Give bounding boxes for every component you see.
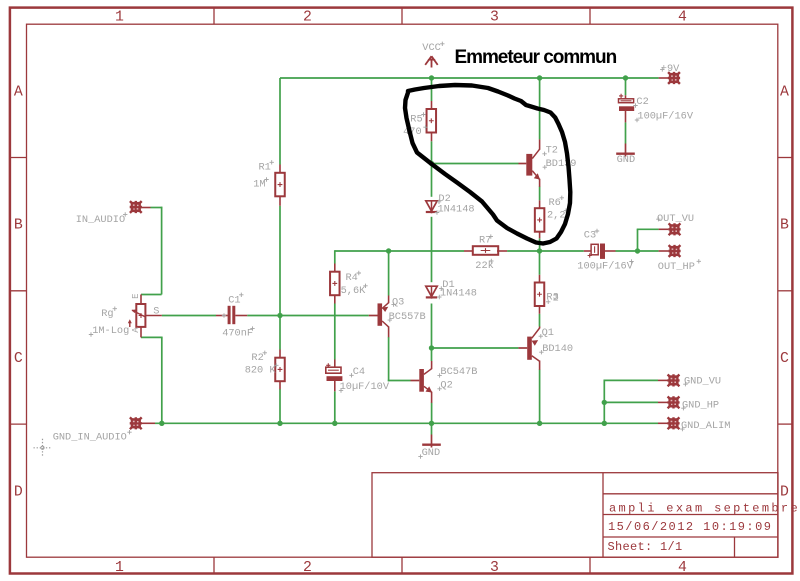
svg-text:BC557B: BC557B [389,311,426,323]
svg-text:A: A [14,84,23,100]
pad GND_IN_AUDIO [130,417,155,429]
wire R1 bottom to node [279,206,281,316]
label Q1 BD140 [539,327,574,355]
svg-text:1: 1 [115,10,124,26]
svg-text:S: S [153,305,159,317]
wire GND_VU branch [604,380,659,424]
label GND_HP [681,399,719,411]
wire rail corner to R4 [334,250,336,263]
label VCC [422,42,444,54]
label D1 1N4148 [437,279,477,300]
label GND_VU [683,375,721,387]
wire T2 base line [432,163,519,165]
label Q3 BC557B [388,296,426,323]
svg-text:2: 2 [553,292,559,304]
svg-text:T2: T2 [546,145,558,157]
svg-text:OUT_VU: OUT_VU [657,213,694,225]
label OUT_VU [656,213,694,225]
label C4 10uF/10V [339,366,390,393]
svg-text:GND_VU: GND_VU [684,375,721,387]
resistor R7 [464,246,507,255]
wire R5 bottom to D2 [431,141,433,197]
label R5 470 [403,112,428,138]
svg-text:BD140: BD140 [542,343,573,355]
label D2 1N4148 [435,193,475,215]
svg-text:1M-Log: 1M-Log [92,325,129,337]
wire Q3 emitter up to rail [388,251,390,296]
junction C2 at VCC rail [623,75,628,80]
junction GND_HP branch [602,400,607,405]
svg-text:470nF: 470nF [222,327,253,339]
resistor R3 [535,275,545,314]
wire R6 bottom to node [539,238,541,251]
svg-text:R2: R2 [251,352,263,364]
ground symbol below Q2 [422,435,441,448]
wire C4 bottom to ground rail [334,391,336,423]
svg-text:Emmeteur commun: Emmeteur commun [455,47,617,68]
svg-text:R5: R5 [410,114,422,126]
title block text: sheet [608,540,683,554]
wire Q2 emitter to ground rail [431,403,433,424]
transistor Q3 BC557B (PNP) [369,296,389,338]
svg-text:C: C [780,351,789,367]
wire pot wiper to C1 left [162,315,216,317]
wire ground rail to GND symbol [431,423,433,434]
svg-text:C2: C2 [636,96,648,108]
wire GND_HP branch [604,401,658,403]
pad GND_HP [658,396,680,408]
wire T2 emitter to R6 [539,186,541,200]
junction OUT node [635,248,640,253]
svg-text:2: 2 [303,10,312,26]
label T2 BD139 [542,145,576,170]
transistor T2 BD139 (NPN) [519,139,540,186]
svg-text:Rg: Rg [101,308,113,320]
wire T2 collector to VCC rail [539,78,541,139]
wire pot bottom to ground rail [141,337,163,423]
VCC supply arrow [425,56,438,67]
svg-text:R7: R7 [479,234,491,246]
label R2 820K [245,351,279,377]
wire node to R2 top [279,316,281,350]
label Q2 BC547B [437,366,477,391]
junction T2 base node [429,161,434,166]
pad +9V [659,72,681,84]
handwritten marker loop annotation [405,85,570,244]
svg-text:1N4148: 1N4148 [438,203,475,215]
svg-text:BD139: BD139 [546,158,577,170]
svg-text:D: D [14,484,23,500]
svg-text:C: C [14,351,23,367]
label IN_AUDIO [76,212,128,226]
label +9V [660,63,680,75]
junction GND_IN_AUDIO at rail [159,421,164,426]
label R3 [546,292,559,305]
frame row labels left [14,84,23,500]
wire Q1 base line [432,347,519,349]
resistor R1 [275,165,285,206]
pad GND_VU [658,374,680,386]
svg-text:100µF/16V: 100µF/16V [577,261,633,273]
resistor R2 [275,350,285,390]
svg-text:R1: R1 [259,161,271,173]
resistor R6 [535,200,545,238]
svg-text:3: 3 [490,560,499,576]
label GND below C2 [617,154,636,166]
junction Q3 emitter at rail [386,248,391,253]
label C1 470nF [222,293,255,340]
junction GND_ALIM at rail [602,421,607,426]
wire C2 bottom to GND [625,122,627,143]
svg-text:1N4148: 1N4148 [440,288,477,300]
transistor Q1 BD140 (PNP) [518,327,539,370]
svg-text:100µF/16V: 100µF/16V [637,110,693,122]
svg-text:4: 4 [678,560,687,576]
resistor R5 [427,101,437,141]
junction VCC arrow node [429,75,434,80]
svg-text:C1: C1 [228,295,240,307]
capacitor C4 [326,360,343,392]
svg-text:2,2: 2,2 [547,210,566,222]
diode D2 1N4148 [426,200,437,213]
diode D1 1N4148 [426,286,437,299]
svg-text:D: D [780,484,789,500]
potentiometer Rg [128,295,162,338]
svg-text:GND_IN_AUDIO: GND_IN_AUDIO [53,432,127,444]
wire Q3 collector down to Q2 base [388,337,411,381]
svg-text:1M: 1M [253,178,265,190]
ground symbol below C2 [616,144,635,157]
junction R2 at ground rail [277,421,282,426]
wire R4 bottom crossing to C4 [334,304,336,360]
svg-text:B: B [14,218,23,234]
svg-text:B: B [780,218,789,234]
capacitor C3 [584,244,616,259]
wire C2 junction down [625,78,627,95]
label C2 100uF/16V [633,96,694,122]
svg-text:2: 2 [303,560,312,576]
label GND below Q2 [418,447,440,459]
label R4 5.6K [341,271,368,297]
frame row labels right [780,84,789,500]
label R7 22k [475,234,494,271]
frame column labels bottom [115,560,687,576]
label GND_IN_AUDIO [53,430,132,444]
pad GND_ALIM [604,417,679,429]
label R6 2.2 [547,196,568,222]
wire emitter rail y251 [335,250,464,252]
label R1 1M [253,160,274,190]
svg-text:R4: R4 [346,272,358,284]
junction C1/R1/R2/Q3-base node [277,313,282,318]
title block text: date [608,520,772,534]
svg-text:3: 3 [490,10,499,26]
junction T2 collector at VCC rail [537,75,542,80]
wire VCC rail left drop to R1 [279,78,281,165]
svg-text:Q1: Q1 [542,327,554,339]
wire ground rail [155,422,604,424]
svg-text:A: A [131,327,141,333]
pad OUT_VU [659,223,681,235]
resistor R4 [330,264,340,304]
label OUT_HP [658,259,701,273]
title block [372,473,778,558]
pad OUT_HP [659,245,681,257]
svg-text:R6: R6 [549,197,561,209]
svg-text:A: A [780,84,789,100]
origin crosshair dotted [34,439,52,457]
svg-text:Sheet: 1/1: Sheet: 1/1 [608,540,683,554]
svg-text:10µF/10V: 10µF/10V [340,381,390,393]
capacitor C1 [216,306,247,324]
wire C3 right to OUT node [616,250,659,252]
label pot pin E [131,293,141,298]
svg-text:GND_ALIM: GND_ALIM [681,420,730,432]
svg-text:5,6K: 5,6K [341,285,367,297]
svg-text:BC547B: BC547B [440,366,477,378]
svg-text:4: 4 [678,10,687,26]
svg-text:C3: C3 [584,230,596,242]
wire D2 to D1 [431,217,433,282]
junction Q2 emitter / GND at rail [429,421,434,426]
wire Q1 collector to ground rail [539,370,541,424]
svg-text:GND: GND [617,154,636,166]
junction R6/R3/R7/C3 node [537,248,542,253]
pad IN_AUDIO [130,201,151,213]
wire D1 to Q1 base junction to Q2 collector [431,304,433,362]
label pot pin S [153,305,159,317]
capacitor C2 [619,94,635,123]
annotation text Emmeteur commun [455,47,617,68]
svg-text:VCC: VCC [422,42,441,54]
label GND_ALIM [680,420,730,432]
svg-text:GND_HP: GND_HP [682,399,719,411]
label C3 100uF/16V [577,229,633,273]
wire VCC rail [280,77,659,79]
transistor Q2 BC547B (NPN) [411,361,432,403]
wire IN_AUDIO to pot top [141,207,162,295]
wire VCC junction down to R5 [431,78,433,101]
svg-text:1: 1 [115,560,124,576]
svg-text:Q2: Q2 [440,379,452,391]
svg-text:E: E [131,293,141,298]
junction C4 at ground rail [332,421,337,426]
svg-text:IN_AUDIO: IN_AUDIO [76,214,125,226]
frame column labels top [115,10,687,26]
svg-text:GND: GND [422,447,441,459]
wire node down to R3 [539,251,541,275]
title block text: project name [609,501,800,515]
wire C1 right to node to Q3 base [247,315,369,317]
wire R7 right to node [507,250,584,252]
wire R2 bottom to ground rail [279,389,281,423]
junction Q1 collector at rail [537,421,542,426]
label pot pin A [131,327,141,333]
svg-text:OUT_HP: OUT_HP [658,261,695,273]
junction D1 / Q1 base / Q2 collector [429,345,434,350]
svg-text:ampli exam septembre: ampli exam septembre [609,501,800,515]
svg-text:15/06/2012 10:19:09: 15/06/2012 10:19:09 [608,520,772,534]
svg-text:C4: C4 [353,366,365,378]
wire OUT node up to OUT_VU [637,229,659,251]
wire R3 bottom to Q1 emitter [539,314,541,327]
svg-text:820 K: 820 K [245,365,277,377]
label Rg 1M-Log [89,307,129,338]
